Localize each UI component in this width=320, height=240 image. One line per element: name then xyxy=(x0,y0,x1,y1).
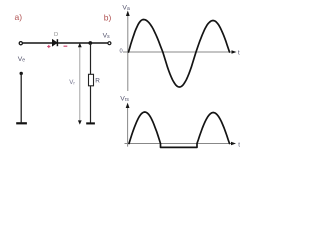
axis Va vertical xyxy=(126,11,130,92)
svg-text:b): b) xyxy=(104,12,112,22)
svg-text:Ve: Ve xyxy=(18,56,26,64)
label R xyxy=(95,77,100,84)
wire Ve source branch xyxy=(20,73,22,122)
svg-text:D: D xyxy=(54,32,58,38)
svg-text:Va: Va xyxy=(122,5,130,13)
node Ve source terminal dot xyxy=(20,72,23,75)
diode D xyxy=(52,39,57,46)
label Vs xyxy=(103,32,111,40)
wire resistor branch lower xyxy=(90,86,92,123)
waveform Vrs rectified curve xyxy=(129,112,230,147)
axis t horizontal (graph a) xyxy=(123,50,237,54)
label 0 xyxy=(120,49,123,55)
ground bar (resistor branch) xyxy=(86,122,95,124)
svg-text:R: R xyxy=(95,77,100,84)
resistor R xyxy=(89,74,94,86)
svg-text:Vrs: Vrs xyxy=(120,96,129,104)
label Ve xyxy=(18,56,26,64)
polarity minus mark xyxy=(64,45,68,47)
label Vrs xyxy=(120,96,129,104)
ground bar (source branch) xyxy=(16,122,27,124)
node junction on top rail xyxy=(88,41,92,45)
wire resistor branch upper xyxy=(90,43,92,74)
svg-text:0: 0 xyxy=(120,49,123,55)
svg-text:Vs: Vs xyxy=(103,32,111,40)
output terminal Vs node xyxy=(108,42,111,45)
axis t horizontal (graph b) xyxy=(125,142,237,146)
label Va xyxy=(122,5,130,13)
polarity plus mark xyxy=(47,45,50,48)
input terminal (left node) xyxy=(19,42,22,45)
waveform Va sine curve xyxy=(129,20,230,88)
label b) xyxy=(104,12,112,22)
wire top rail xyxy=(23,42,108,44)
label D xyxy=(54,32,58,38)
label a) xyxy=(15,12,23,22)
label t (graph b) xyxy=(238,141,240,148)
svg-text:Vr: Vr xyxy=(69,79,75,86)
svg-text:a): a) xyxy=(15,12,23,22)
axis Vrs vertical xyxy=(126,103,130,147)
label Vr xyxy=(69,79,75,86)
svg-text:t: t xyxy=(238,50,240,57)
svg-text:t: t xyxy=(238,141,240,148)
voltage arrow Vr (output voltage indicator) xyxy=(78,43,82,125)
label t (graph a) xyxy=(238,50,240,57)
